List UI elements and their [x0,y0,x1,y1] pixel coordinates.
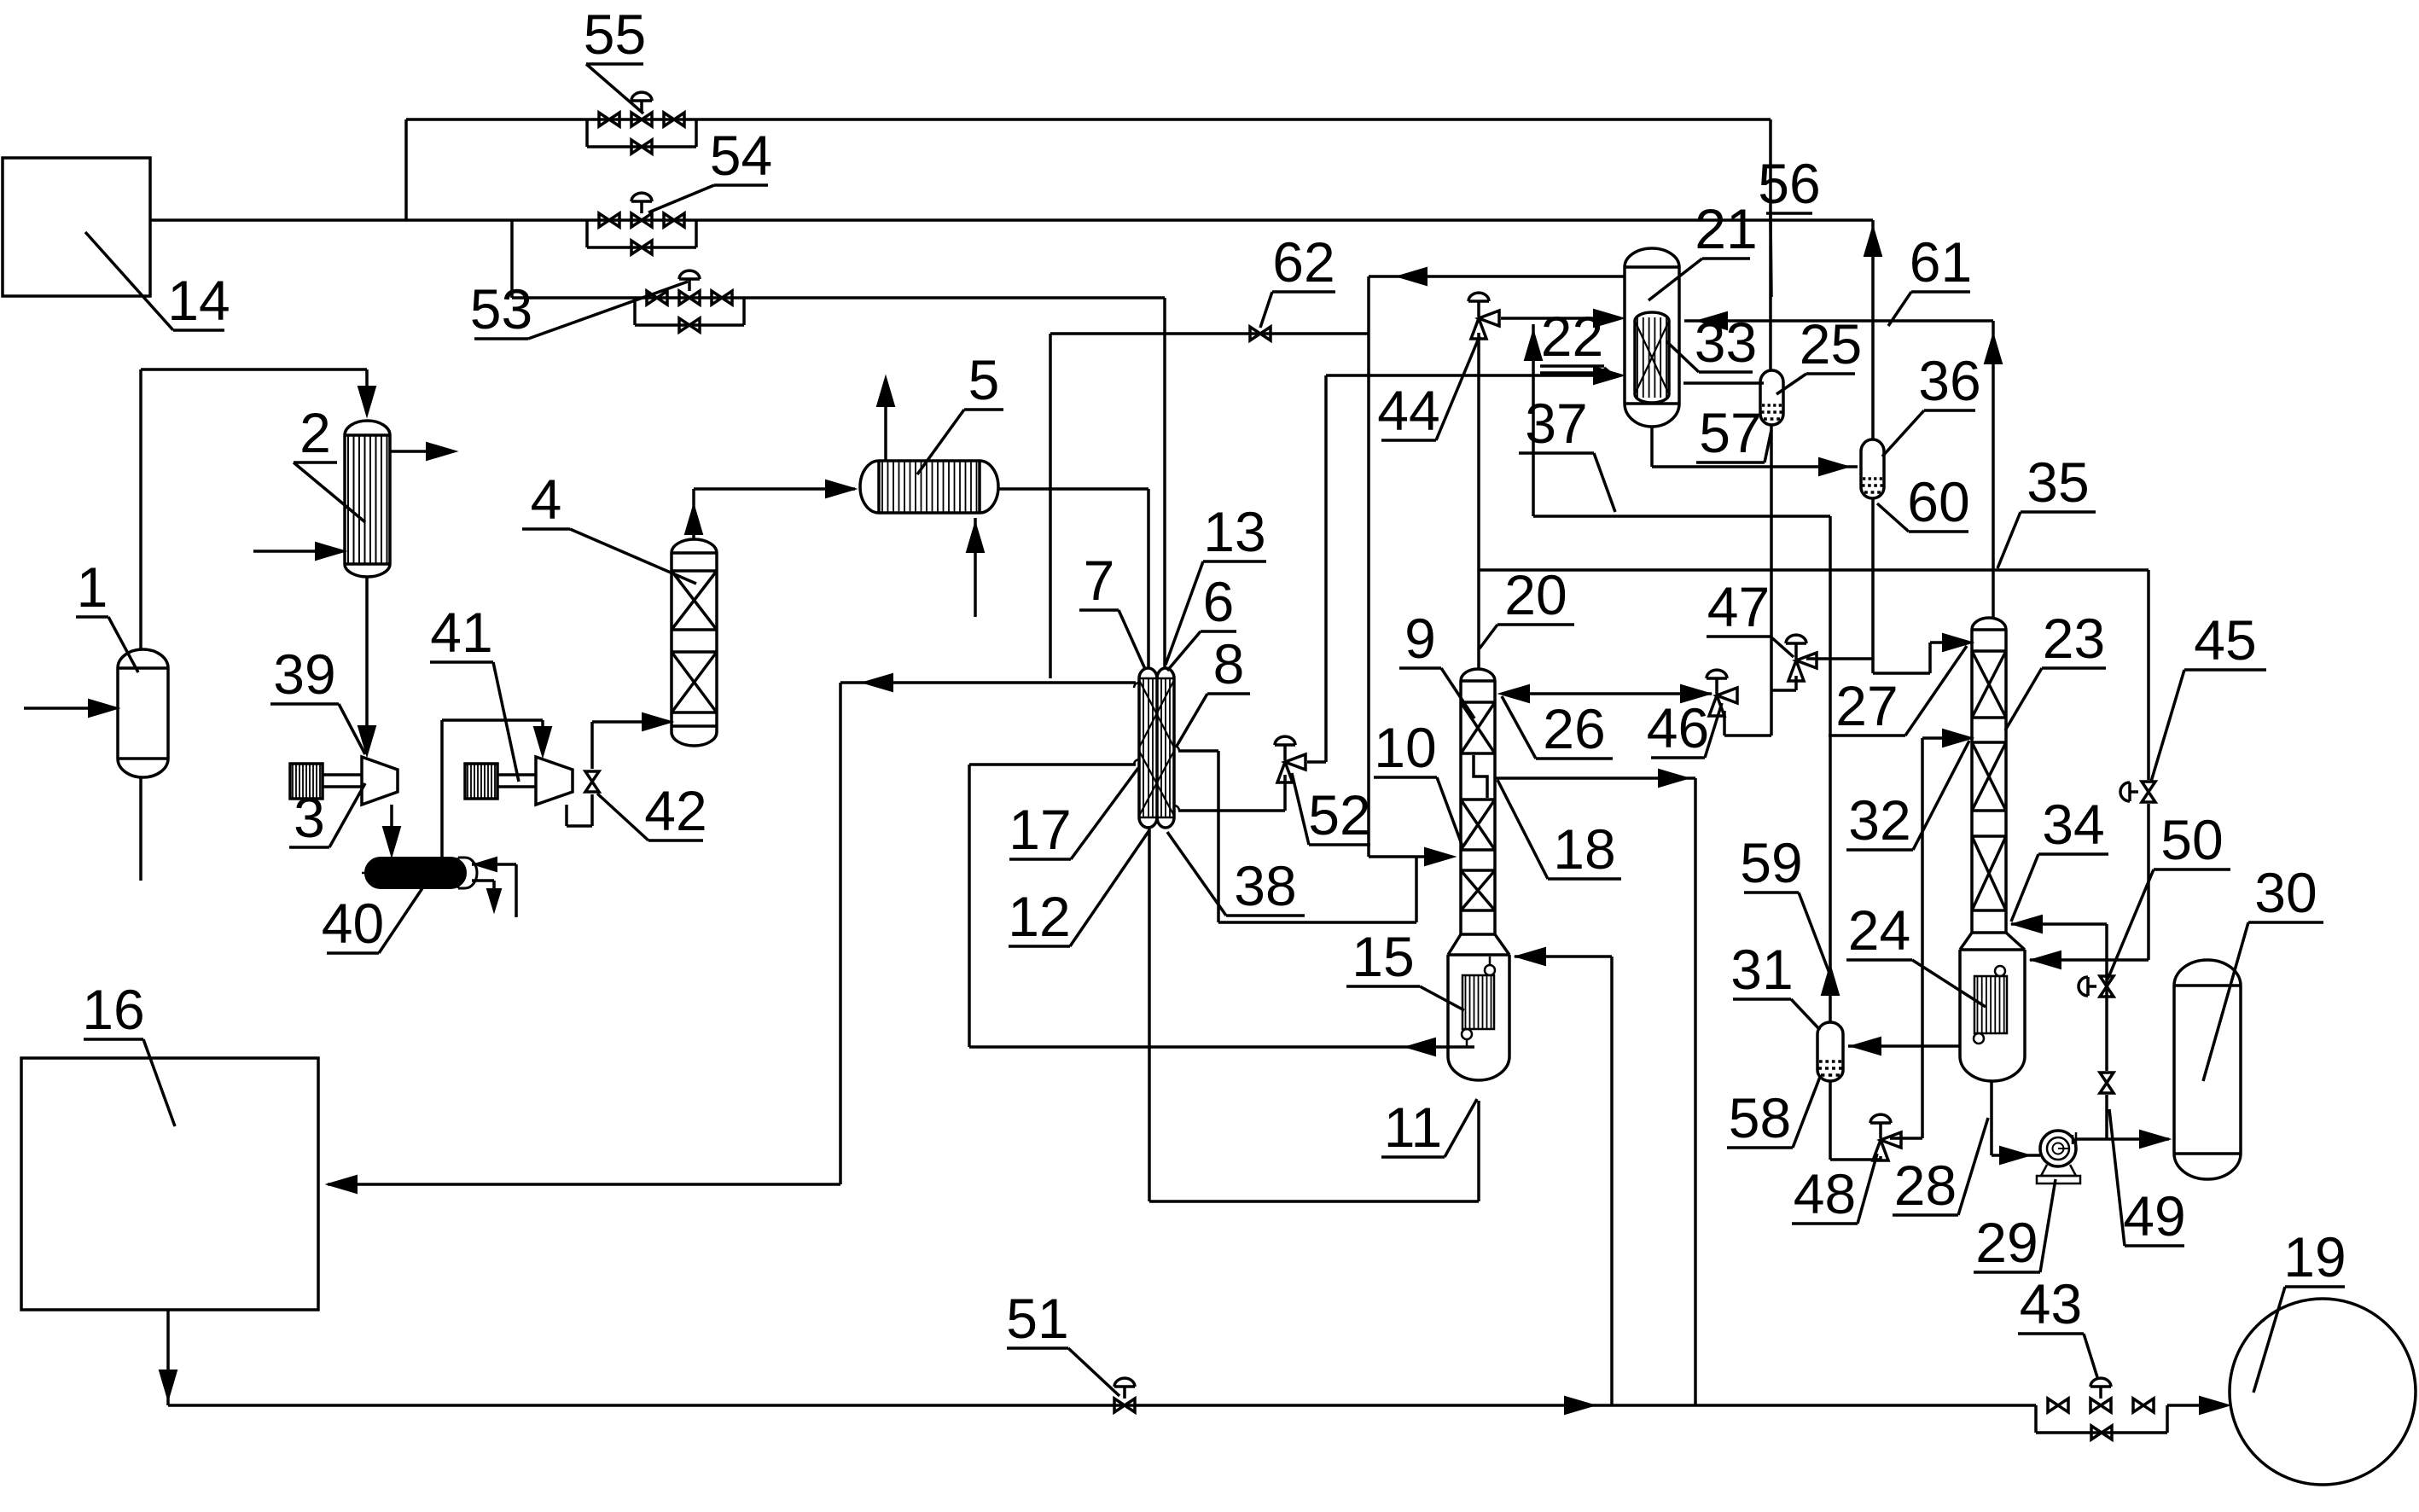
compressor 3 [290,764,323,799]
label 57 [1696,461,1765,464]
wire HX lower right nozzle to valve 52 [1178,809,1285,812]
label 15 [1346,985,1420,988]
wire [1149,1200,1479,1203]
svg-text:23: 23 [2043,607,2105,670]
control valve 52 [1285,754,1305,770]
wire twin HX bottom to column 11 bottoms [1148,826,1151,1201]
vessel 31 [1817,1022,1843,1034]
svg-text:17: 17 [1009,798,1071,861]
box unit 14 [3,158,150,296]
svg-text:6: 6 [1203,570,1235,633]
label 5 [964,408,1003,411]
wire vessel 36 overhead [1871,220,1875,439]
wire reboiler 24 outlet to vessel 31 [1848,1044,1960,1048]
svg-text:21: 21 [1695,197,1757,260]
svg-text:16: 16 [82,978,144,1041]
valve group 55 [599,113,609,126]
wire down to valve 62 tee [1367,276,1370,334]
wire HX 40 to compressor 41 [440,720,444,858]
svg-text:9: 9 [1404,607,1436,670]
label 4 [522,527,570,531]
label 48 [1792,1222,1858,1225]
wire [2105,1095,2108,1139]
label 49 [2125,1244,2184,1247]
wire HX 5 utility stub [974,518,977,617]
wire compressor 3 discharge [390,805,393,851]
wire down to vessel 25 [1769,119,1772,370]
label 37 [1519,451,1594,455]
svg-text:24: 24 [1848,898,1910,962]
label 33 [1699,370,1753,374]
svg-text:31: 31 [1730,938,1793,1001]
wire 38 line [1218,921,1416,924]
label 50 [2154,868,2230,871]
valve 45 [2142,782,2155,792]
wire reactor 21 overhead going left [1369,275,1625,278]
wire into valve 47 [1794,676,1798,690]
svg-text:43: 43 [2020,1272,2082,1335]
label 27 [1829,734,1905,737]
svg-text:55: 55 [584,3,646,66]
svg-text:8: 8 [1213,632,1245,695]
wire vessel 1 overhead [139,369,142,649]
wire 32 feed into column 23 [1922,736,1967,740]
label 38 [1226,914,1305,917]
label 44 [1381,439,1436,442]
label 30 [2248,921,2323,924]
control valve 48 [1881,1132,1901,1148]
svg-text:59: 59 [1740,831,1802,894]
svg-text:32: 32 [1848,788,1910,852]
svg-text:48: 48 [1794,1162,1856,1225]
label 40 [327,951,379,955]
wire HX 7 top-left nozzle line [840,681,1136,684]
svg-text:22: 22 [1541,305,1603,368]
valve 62 [1250,327,1260,340]
svg-text:7: 7 [1084,549,1115,612]
svg-text:14: 14 [167,269,230,332]
label 19 [2285,1285,2345,1288]
wire feed into vessel 1 [24,707,113,710]
compressor 41 [465,764,497,799]
wire into tank 19 [2167,1404,2224,1407]
wire vessel 36 bottoms [1871,497,1875,673]
label 56 [1766,212,1812,215]
wire 26/46 reflux line to column 9 [1503,692,1712,695]
label 26 [1536,757,1613,760]
svg-text:36: 36 [1918,349,1980,412]
svg-text:28: 28 [1894,1154,1957,1217]
label 45 [2184,668,2266,672]
label 59 [1744,891,1799,894]
svg-text:19: 19 [2283,1225,2346,1288]
wire into column 4 [592,720,666,724]
control valve 47 [1796,653,1817,668]
label 20 [1497,623,1574,626]
wire pump discharge to vessel 30 [2076,1137,2169,1141]
svg-text:58: 58 [1729,1086,1791,1149]
wire return to box 16 [328,1183,840,1186]
label 52 [1309,843,1370,846]
label 61 [1911,290,1970,294]
wire reboiler 15 circuit [969,1045,1474,1049]
svg-text:41: 41 [430,601,492,664]
label 51 [1007,1346,1068,1350]
svg-text:54: 54 [710,124,772,187]
label 32 [1846,848,1913,852]
wire long bottom product line [168,1404,2036,1407]
label 41 [430,660,493,664]
reboiler 15 [1462,975,1494,1029]
label 28 [1893,1213,1958,1217]
wire column 2 bottoms to compressor 3 [365,577,369,750]
label 62 [1272,290,1335,294]
control valve 46 [1717,688,1737,703]
svg-text:46: 46 [1647,696,1709,759]
svg-text:51: 51 [1006,1287,1068,1350]
wire column 9 overhead (20) [1477,333,1480,668]
valve 49 [2100,1073,2114,1083]
wire branch to valve 46 [1770,690,1773,736]
heat exchanger 40 [365,858,466,888]
wire down through valves 50 49 [2105,924,2108,1071]
label 43 [2018,1332,2084,1335]
wire [1724,734,1771,737]
valve group 54 [599,213,609,227]
wire [1771,689,1796,692]
wire down [968,765,971,1047]
wire HX 7 lower-left nozzle line [969,763,1136,766]
svg-text:53: 53 [470,277,532,340]
wire 53-line [512,296,1165,299]
column 9 10 11 [1461,669,1495,681]
wire branch down to 53-line [510,220,514,298]
column 4 [672,539,717,553]
wire into HX 7 left cylinder [1147,489,1150,667]
wire to HX right mid nozzle [1178,749,1218,753]
wire down to HX 7 inlet line [1049,334,1052,678]
wire riser 22 [1324,375,1328,762]
label 25 [1806,372,1855,375]
svg-text:57: 57 [1699,401,1761,464]
wire column 11 bottoms [1477,1101,1480,1201]
valve group 43 [2048,1399,2058,1412]
twin heat exchanger 6 7 13 [1139,668,1157,678]
wire 18 sidedraw from column 9 [1496,776,1695,780]
wire 27 feed to column 23 [1930,641,1967,644]
wire down to bottom product line [1694,778,1697,1405]
wire valve 52 outlet [1307,760,1326,764]
valve group 53 [647,291,657,305]
label 12 [1009,945,1070,948]
svg-text:52: 52 [1308,783,1370,846]
wire through valve 62 [1050,332,1369,335]
pump 29 [2040,1131,2076,1166]
wire cooling water out [472,879,494,882]
wire vessel 25 bottoms [1770,424,1773,690]
wire 35 line [1479,568,2149,572]
wire column 23 overhead (61) [1992,321,1995,619]
svg-text:2: 2 [299,401,331,464]
wire branch up to 55-line [404,119,408,220]
label 42 [648,839,703,842]
svg-text:38: 38 [1234,854,1296,917]
svg-text:40: 40 [322,892,384,955]
column 23 [1972,618,2006,630]
label 14 [173,329,224,332]
svg-text:60: 60 [1907,470,1969,533]
label 46 [1651,756,1705,759]
wire into valve 46 [1723,711,1726,736]
wire valve 47 outlet [1806,657,1873,660]
label 10 [1374,776,1437,779]
arrow up into 54-line [1864,227,1881,256]
wire HX 5 vent [884,382,887,461]
label 36 [1924,409,1975,412]
svg-text:13: 13 [1203,500,1265,563]
wire column 2 side feed [253,550,340,553]
label 3 [289,846,329,849]
svg-text:20: 20 [1504,563,1567,626]
internal draw tray [1474,755,1487,798]
wire vessel 31 bottoms [1829,1080,1832,1160]
wire down through valve 45 [2147,570,2150,780]
storage tank 19 [2230,1299,2416,1485]
wire compressor 41 discharge [565,805,568,826]
label 54 [714,183,768,187]
svg-text:5: 5 [968,348,1000,411]
label 13 [1203,560,1266,563]
wire up into valve 52 [1283,775,1287,811]
wire jog [1415,857,1418,922]
wire feed 10 into column 9 [1416,855,1449,858]
svg-text:62: 62 [1272,230,1335,294]
svg-text:12: 12 [1008,885,1070,948]
wire into column 23 bottom section [2030,958,2149,962]
label 6 [1201,630,1236,633]
wire column 2 gas out [390,450,451,453]
svg-text:49: 49 [2123,1184,2185,1247]
wire riser from valve 48 [1921,738,1924,1138]
wire down to column 9 feed [1367,334,1370,857]
vessel 36 [1861,439,1884,451]
control valve 51 [1114,1399,1125,1412]
svg-text:61: 61 [1910,230,1972,294]
label 8 [1207,692,1250,695]
svg-text:34: 34 [2042,793,2104,856]
svg-text:29: 29 [1975,1211,2038,1274]
wire into column 9 bottom section [1515,955,1612,958]
svg-text:42: 42 [644,779,707,842]
wire 61 line into reactor right side [1684,319,1993,323]
wire box 16 outlet [166,1310,170,1405]
svg-text:45: 45 [2194,608,2256,672]
svg-text:1: 1 [77,555,108,619]
svg-text:47: 47 [1707,575,1770,638]
wire valve 48 outlet [1890,1137,1922,1140]
wire valve 44 outlet to reactor [1501,317,1619,320]
label 1 [76,615,108,619]
box unit 16 [21,1058,318,1310]
wire to HX 5 [694,487,855,491]
wire into column 2 [365,369,369,410]
vessel 25 [1760,370,1783,382]
svg-text:11: 11 [1384,1096,1443,1159]
label 7 [1079,608,1119,612]
label 31 [1733,997,1791,1001]
wire HX 5 outlet [998,487,1148,491]
wire 22 into reactor 21 [1326,374,1619,377]
wire jog [1873,672,1930,675]
wire column 23 bottoms (28) [1990,1081,1993,1155]
svg-text:27: 27 [1835,674,1898,737]
label 55 [586,62,643,66]
label 24 [1846,958,1912,962]
column 2 [345,421,390,435]
label 34 [2038,852,2108,856]
reboiler 24 [1974,976,2007,1033]
control valve 44 [1479,311,1499,326]
svg-text:44: 44 [1377,379,1439,442]
label 60 [1909,530,1968,533]
svg-text:50: 50 [2160,808,2223,871]
wire [1879,1156,1882,1160]
wire 55-line top [406,118,1771,121]
svg-text:26: 26 [1543,697,1605,760]
svg-text:56: 56 [1758,152,1820,215]
label 16 [84,1038,143,1041]
wire jog [1928,643,1932,673]
label 53 [474,337,528,340]
heat exchanger 5 [860,461,879,513]
svg-text:37: 37 [1525,392,1587,455]
wire [2147,804,2150,960]
wire column 4 overhead [692,489,695,540]
wire to pump 29 [1992,1154,2040,1157]
wire to vessel 36 [1652,465,1858,468]
wire riser to column 9 bottom section [1610,957,1614,1405]
label 2 [294,461,337,464]
wire [1369,855,1416,858]
valve 42 [585,771,599,782]
wire up [1217,751,1220,922]
wire 34 feed into column 23 skirt [2011,922,2107,926]
label 17 [1009,858,1071,861]
label 58 [1727,1146,1793,1149]
reactor 21 [1625,248,1679,267]
label 35 [2021,510,2096,514]
svg-text:33: 33 [1695,311,1757,374]
svg-text:25: 25 [1800,312,1862,375]
wire vessel 31 overhead riser (59) [1829,516,1832,1022]
wire vessel 1 bottoms stub [139,777,142,881]
svg-text:39: 39 [273,643,335,706]
label 21 [1702,257,1750,260]
label 22 [1540,364,1604,368]
svg-text:18: 18 [1553,817,1615,881]
label 23 [2042,666,2106,670]
label 29 [1974,1271,2040,1274]
vessel 30 [2174,960,2241,986]
label 47 [1707,635,1771,638]
svg-text:3: 3 [294,786,325,849]
svg-text:30: 30 [2254,861,2317,924]
wire [141,368,367,371]
label 18 [1548,877,1621,881]
svg-text:35: 35 [2026,451,2089,514]
svg-text:4: 4 [531,468,562,531]
wire 37 horizontal [1533,515,1830,518]
wire 37 riser [1532,324,1535,516]
svg-text:10: 10 [1374,716,1436,779]
valve 50 [2100,976,2114,986]
label 11 [1381,1155,1445,1159]
wire reactor 21 bottoms [1650,427,1654,467]
wire [1830,1158,1881,1161]
wire down into HX 6 right cylinder [1163,298,1166,667]
svg-text:15: 15 [1352,925,1414,988]
label 9 [1399,666,1441,670]
wire cooling water in [472,863,516,866]
wire main recycle line to 14 (54-line) [150,218,1873,222]
wire riser [839,683,842,1184]
vessel 1 [118,649,168,668]
label 39 [270,702,339,706]
internal heat exchanger 33 [1635,312,1669,321]
